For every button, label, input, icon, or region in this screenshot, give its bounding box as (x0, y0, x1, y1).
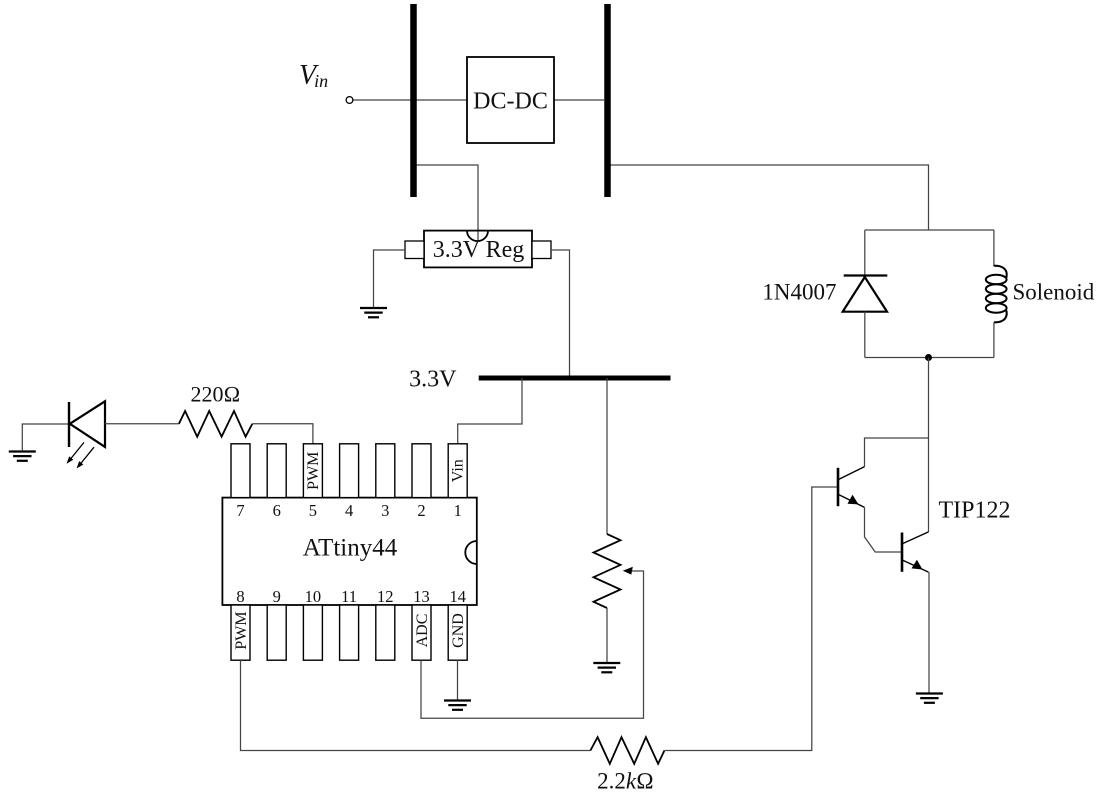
bus bar left (Vin rail) (410, 4, 417, 197)
diode 1N4007 (843, 276, 888, 312)
ground below TIP122 (916, 694, 943, 703)
terminal Vin (346, 97, 353, 104)
wire 3.3V bus to IC pin 1 (Vin) (458, 378, 522, 444)
wire resistor to IC pin 5 (252, 424, 313, 444)
svg-text:5: 5 (309, 501, 317, 520)
LED D2 (69, 401, 105, 447)
svg-text:13: 13 (413, 587, 430, 606)
IC pin rects top (231, 444, 467, 498)
svg-text:GND: GND (450, 613, 467, 648)
svg-text:ADC: ADC (414, 614, 431, 648)
svg-text:14: 14 (449, 587, 466, 606)
svg-text:11: 11 (341, 587, 357, 606)
ground at LED (9, 452, 36, 461)
wire IC pin 13 (ADC) to pot wiper (421, 571, 644, 718)
svg-text:6: 6 (273, 501, 281, 520)
svg-text:3.3V: 3.3V (409, 367, 457, 393)
wire collector branch to Q1 (865, 438, 929, 467)
svg-text:DC-DC: DC-DC (473, 89, 548, 115)
svg-text:1N4007: 1N4007 (762, 280, 836, 305)
svg-text:1: 1 (454, 501, 462, 520)
svg-text:10: 10 (305, 587, 322, 606)
svg-text:3.3V Reg: 3.3V Reg (433, 237, 525, 263)
wire regulator output to 3.3V bus (551, 250, 570, 378)
ground below potentiometer (593, 663, 620, 672)
wire loop right upper (993, 230, 995, 266)
svg-text:PWM: PWM (305, 452, 322, 490)
regulator left pin (405, 241, 424, 259)
transistor Q1 (TIP122 darlington input) (838, 467, 865, 508)
svg-text:3: 3 (381, 501, 389, 520)
wire right bus bar to solenoid circuit (609, 165, 929, 230)
wire ground to LED cathode (22, 424, 69, 451)
wire pot bottom to ground (606, 608, 608, 662)
wire left bus bar to 3.3V Reg input (415, 165, 478, 241)
IC pin rects bottom (231, 605, 467, 660)
IC pin numbers top (236, 501, 461, 520)
LED arrows (67, 442, 95, 468)
svg-text:2: 2 (417, 501, 425, 520)
wire loop right lower (993, 322, 995, 357)
wire Q2 emitter to ground (928, 572, 930, 693)
block DC-DC (467, 57, 554, 143)
inductor L1 solenoid (986, 266, 1007, 323)
ground below pin 14 (444, 701, 471, 710)
wire loop bottom (865, 357, 994, 359)
regulator notch (467, 231, 488, 242)
wire DC-DC to right bus bar (554, 99, 604, 101)
wire LED to resistor (105, 423, 179, 425)
svg-text:4: 4 (345, 501, 353, 520)
IC U1 ATtiny44 body (222, 498, 476, 605)
wire regulator left pin to ground (374, 250, 406, 307)
transistor Q2 (TIP122 output) (902, 532, 929, 572)
IC pin numbers bottom (236, 587, 466, 606)
svg-text:12: 12 (377, 587, 394, 606)
svg-text:9: 9 (273, 587, 281, 606)
regulator U2 3.3V Reg body (424, 231, 532, 268)
svg-text:Solenoid: Solenoid (1013, 280, 1095, 305)
wire loop left upper (864, 230, 866, 277)
wire IC pin 14 to ground (457, 660, 459, 700)
potentiometer R2 (594, 534, 621, 608)
wire junction down to collector rail (928, 358, 930, 533)
potentiometer wiper arrow (623, 567, 633, 575)
svg-text:220Ω: 220Ω (191, 382, 241, 407)
resistor 2.2k (590, 737, 664, 764)
IC notch (465, 541, 477, 564)
wire top of snubber loop (865, 229, 994, 231)
svg-text:8: 8 (236, 587, 244, 606)
svg-text:Vin: Vin (450, 459, 467, 482)
svg-text:2.2kΩ: 2.2kΩ (597, 769, 654, 794)
regulator right pin (532, 241, 551, 259)
ground below regulator (360, 308, 387, 317)
wire IC pin 8 to 2.2k resistor (241, 660, 591, 750)
resistor 220ohm (179, 411, 252, 437)
wire loop left lower (864, 312, 866, 358)
bus bar 3.3V (479, 376, 671, 381)
wire Vin terminal to DC-DC (353, 99, 467, 101)
bus bar right (output rail) (604, 4, 611, 197)
svg-text:ATtiny44: ATtiny44 (303, 535, 398, 562)
wire Q1 emitter to Q2 base (865, 507, 902, 552)
wire 3.3V bus to potentiometer (606, 378, 608, 534)
svg-text:7: 7 (236, 501, 244, 520)
wire 2.2k resistor to TIP122 base (664, 487, 838, 751)
svg-text:PWM: PWM (233, 611, 250, 649)
junction node dot (925, 354, 932, 361)
svg-text:TIP122: TIP122 (939, 498, 1011, 524)
